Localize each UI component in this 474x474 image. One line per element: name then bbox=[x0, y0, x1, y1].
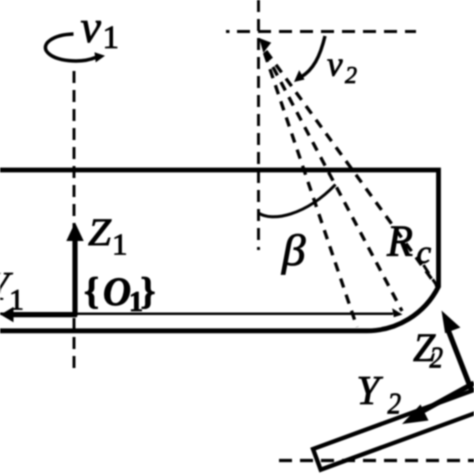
svg-text:}: } bbox=[141, 271, 156, 313]
svg-text:1: 1 bbox=[103, 20, 120, 56]
svg-text:O: O bbox=[103, 269, 131, 314]
svg-text:2: 2 bbox=[430, 340, 444, 375]
svg-text:Z: Z bbox=[88, 211, 112, 254]
svg-text:c: c bbox=[417, 235, 432, 271]
svg-text:R: R bbox=[386, 217, 413, 266]
svg-text:{: { bbox=[84, 271, 99, 313]
svg-text:1: 1 bbox=[112, 227, 128, 262]
svg-text:β: β bbox=[281, 226, 306, 275]
svg-text:2: 2 bbox=[388, 386, 402, 421]
svg-text:1: 1 bbox=[9, 284, 24, 317]
svg-text:v: v bbox=[327, 45, 343, 84]
svg-text:v: v bbox=[81, 1, 102, 52]
svg-text:2: 2 bbox=[345, 63, 357, 89]
svg-text:Y: Y bbox=[357, 367, 384, 413]
